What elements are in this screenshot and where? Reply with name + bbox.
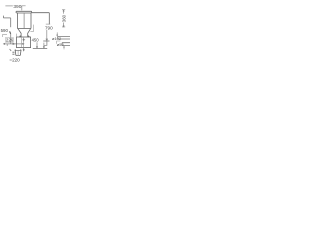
- cistern body left edge: [16, 13, 18, 29]
- small dash: [30, 31, 33, 33]
- dim 226 line with arrows: [4, 43, 24, 45]
- outlet equals arrows: [12, 52, 14, 54]
- cistern centre seam: [23, 13, 25, 28]
- funnel neck arrows: [19, 35, 29, 37]
- dim 590 vertical line upper: [10, 18, 12, 27]
- svg-text:450: 450: [32, 38, 40, 43]
- dim 226 small tick: [6, 44, 8, 46]
- flush pipe elbow vertical: [48, 13, 50, 25]
- dim 450 vertical arrow: [36, 42, 37, 48]
- pan profile step: [44, 41, 47, 45]
- pan inlet line: [43, 40, 49, 42]
- dim 226 arrowheads: [4, 43, 24, 45]
- svg-text:=220: =220: [9, 57, 20, 62]
- pipe 1 body: [58, 37, 70, 40]
- plan view internal wall line: [20, 37, 22, 48]
- small tick near box: [33, 25, 35, 32]
- outlet detail middle line: [17, 50, 19, 55]
- plan view rectangle: [17, 37, 31, 48]
- inlet dim tick: [2, 16, 4, 18]
- dim 590 extension line: [3, 17, 10, 19]
- outlet detail tapering sides: [15, 50, 21, 55]
- flush pipe top run: [32, 12, 50, 14]
- dim 226 box: [5, 38, 13, 43]
- plan view centreline: [23, 37, 25, 48]
- floor line: [33, 47, 47, 49]
- pipe 2 body: [62, 43, 70, 46]
- dim 360 top tick: [62, 9, 65, 11]
- dimension 390 leader bracket: [22, 6, 26, 11]
- svg-text:590: 590: [1, 28, 9, 33]
- pipe 2 bell corner: [57, 41, 61, 44]
- dim 790 top tick: [46, 23, 50, 25]
- cistern body right edge: [30, 13, 32, 29]
- pipe 2 left end: [61, 43, 63, 46]
- plan view centre cross: [22, 38, 25, 41]
- svg-text:790: 790: [45, 25, 53, 30]
- dim 590 arrow mark: [10, 31, 11, 33]
- svg-text:226: 226: [6, 38, 14, 43]
- outlet tick: [10, 49, 12, 51]
- dim 590 lower bracket: [3, 35, 8, 37]
- cistern lid (front view): [16, 11, 32, 13]
- plan view flow arrow: [23, 48, 24, 51]
- funnel right diagonal: [28, 29, 31, 37]
- svg-text:390: 390: [13, 4, 21, 10]
- funnel left diagonal: [18, 29, 21, 37]
- pipe 1 left end: [57, 37, 59, 40]
- cistern bottom: [17, 28, 31, 30]
- pipe 1 diameter arrow: [57, 32, 58, 36]
- dim 590 vertical line lower: [10, 34, 12, 44]
- dim 360 bottom tick: [62, 26, 65, 28]
- step dim arrow: [43, 43, 44, 49]
- outlet detail top line with ticks: [15, 49, 22, 50]
- dim 790 text patch: [45, 24, 53, 29]
- dim 360 arrowheads: [63, 10, 64, 27]
- plan view left edge extension: [16, 34, 18, 37]
- svg-text:360: 360: [62, 14, 67, 22]
- dim 790 lower line with arrow: [46, 30, 48, 41]
- background: [0, 0, 70, 70]
- dimension 390 dashes: [5, 5, 12, 7]
- dim 360 vertical line: [63, 10, 65, 27]
- pipe 2 diameter arrow below: [63, 46, 64, 49]
